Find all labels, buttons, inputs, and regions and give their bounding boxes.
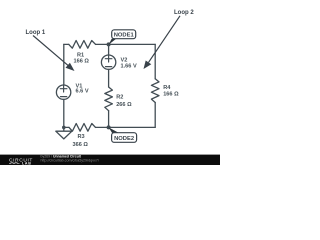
- V2 minus sign: [106, 66, 112, 68]
- CircuitLab logo waveform: [9, 162, 20, 163]
- svg-text:NODE2: NODE2: [114, 136, 134, 142]
- wire right rail lower: [154, 103, 156, 128]
- svg-text:266 Ω: 266 Ω: [116, 102, 132, 108]
- wire middle branch lower: [108, 111, 110, 128]
- node junction dot NODE2: [107, 125, 111, 129]
- resistor R3: [69, 124, 96, 132]
- node NODE2 pointer: [109, 127, 120, 133]
- footer bar: [0, 155, 220, 165]
- wire left rail lower: [63, 99, 65, 127]
- resistor R1: [69, 41, 96, 49]
- svg-text:166 Ω: 166 Ω: [74, 59, 90, 65]
- svg-text:Loop 1: Loop 1: [26, 30, 46, 36]
- wire top rail right segment: [96, 43, 156, 45]
- svg-text:R2: R2: [116, 94, 123, 100]
- annotation Loop 1 arrow line: [33, 36, 68, 66]
- svg-text:http://circuitlab.com/c/ba5y29: http://circuitlab.com/c/ba5y29rdqvx7/: [41, 159, 99, 163]
- wire middle branch between V2 and R2: [108, 69, 110, 87]
- node NODE1 box: [112, 30, 136, 39]
- svg-text:R3: R3: [78, 134, 85, 140]
- svg-text:366 Ω: 366 Ω: [73, 142, 89, 148]
- svg-text:NODE1: NODE1: [114, 33, 135, 39]
- svg-text:Loop 2: Loop 2: [174, 10, 194, 16]
- wire middle branch upper: [108, 44, 110, 55]
- ground: [56, 127, 72, 138]
- svg-text:166 Ω: 166 Ω: [163, 91, 179, 97]
- wire bottom rail left stub: [64, 126, 69, 128]
- annotation Loop 1 arrowhead: [66, 63, 75, 71]
- svg-text:LAB: LAB: [22, 161, 32, 165]
- resistor R4: [151, 79, 159, 103]
- annotation Loop 2 arrow line: [149, 16, 181, 63]
- svg-text:6.6 V: 6.6 V: [76, 89, 89, 95]
- node junction dot ground: [62, 126, 66, 130]
- V1 minus sign: [61, 96, 67, 98]
- resistor R2: [105, 87, 113, 111]
- voltage source V2: [101, 55, 115, 69]
- annotation Loop 2 arrowhead: [144, 61, 152, 70]
- node junction dot NODE1: [107, 42, 111, 46]
- wire right rail upper: [154, 44, 156, 78]
- wire left rail upper: [63, 44, 65, 85]
- svg-text:R1: R1: [77, 52, 84, 58]
- node NODE2 box: [112, 133, 137, 143]
- V2 plus sign: [105, 55, 112, 62]
- wire bottom rail middle: [96, 126, 156, 128]
- svg-text:1.66 V: 1.66 V: [121, 64, 137, 70]
- V1 plus sign: [60, 85, 67, 92]
- svg-text:V2: V2: [121, 57, 128, 63]
- wire top rail left segment: [64, 43, 69, 45]
- voltage source V1: [56, 85, 70, 99]
- svg-text:R4: R4: [163, 85, 171, 91]
- node NODE1 pointer: [109, 39, 117, 45]
